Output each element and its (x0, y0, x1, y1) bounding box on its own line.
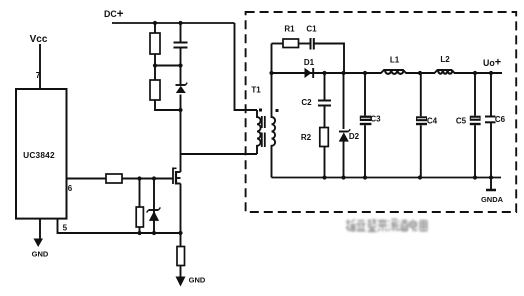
svg-text:T1: T1 (251, 86, 261, 95)
svg-text:L2: L2 (440, 55, 450, 64)
svg-text:C1: C1 (306, 25, 317, 34)
svg-text:C6: C6 (495, 115, 506, 124)
svg-text:D1: D1 (304, 58, 315, 67)
svg-text:Uo+: Uo+ (483, 57, 501, 69)
svg-text:Vcc: Vcc (30, 34, 48, 45)
svg-text:C3: C3 (370, 115, 381, 124)
svg-text:C5: C5 (456, 117, 467, 126)
svg-text:7: 7 (36, 71, 41, 80)
svg-text:D2: D2 (349, 132, 360, 141)
svg-text:5: 5 (63, 224, 68, 233)
svg-text:R1: R1 (284, 25, 295, 34)
svg-text:R2: R2 (301, 133, 312, 142)
svg-text:6: 6 (68, 184, 73, 193)
svg-text:GNDA: GNDA (481, 195, 504, 204)
svg-text:L1: L1 (390, 56, 400, 65)
svg-text:C4: C4 (427, 117, 438, 126)
svg-text:GND: GND (189, 276, 206, 285)
svg-text:UC3842: UC3842 (23, 150, 55, 160)
svg-text:DC+: DC+ (104, 9, 124, 21)
svg-text:C2: C2 (301, 98, 312, 107)
svg-text:GND: GND (32, 250, 49, 259)
